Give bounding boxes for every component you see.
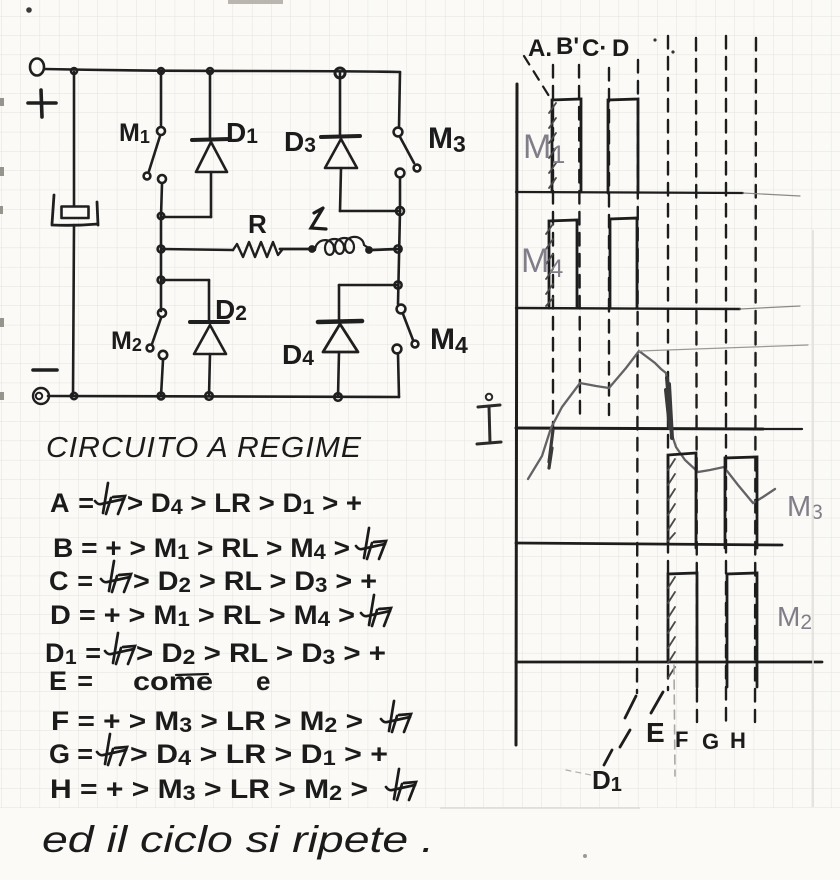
svg-text:G: G (702, 729, 719, 754)
M2 pulse 1 (668, 573, 697, 687)
net line F dashed (696, 38, 697, 722)
curve dark overdraw at E drop (666, 378, 672, 438)
M2 waveform baseline (516, 661, 822, 664)
diode D2 (208, 280, 211, 321)
SECTION: timing labels (477, 33, 823, 796)
hatch M2 pulse1 edge (668, 577, 675, 678)
wire right rail top (399, 72, 400, 127)
wire M1-M2 mid column (160, 216, 163, 311)
SECTION: sequence text (42, 432, 434, 860)
wire bottom rail (48, 396, 399, 397)
wire D4 top link (339, 284, 398, 287)
terminal minus (33, 368, 57, 372)
node A pointer dashed diagonal (524, 56, 549, 96)
I waveform baseline (516, 428, 763, 429)
svg-text:CIRCUITO A REGIME: CIRCUITO A REGIME (46, 432, 362, 464)
svg-text:H: H (730, 728, 746, 753)
svg-text:F: F (675, 727, 688, 752)
pointer dashes to D1 (604, 730, 630, 765)
wire node D1-M column (161, 216, 211, 219)
net line E dashed (667, 36, 669, 690)
SECTION: circuit (28, 59, 420, 405)
hatch M1 pulse1 edge (549, 103, 556, 188)
svg-text:> D2 > RL > D3 > +: > D2 > RL > D3 > + (133, 566, 377, 597)
svg-text:H = + > M3 > LR > M2 >: H = + > M3 > LR > M2 > (50, 774, 368, 805)
svg-text:F = + > M3 > LR > M2 >: F = + > M3 > LR > M2 > (51, 706, 363, 737)
stray dots right of D (653, 38, 656, 41)
svg-text:> D4 > LR > D1 > +: > D4 > LR > D1 > + (130, 739, 388, 770)
resistor R (233, 242, 282, 257)
svg-text:C =: C = (49, 566, 93, 596)
diode D1 (192, 139, 230, 140)
current curve (528, 351, 775, 503)
diode D3 (321, 136, 360, 137)
inductor L (309, 246, 314, 251)
wire D1 drop (209, 72, 212, 138)
net line H dashed (755, 38, 756, 722)
M3 pulse 1 (668, 453, 696, 548)
svg-text:E =: E = (49, 666, 93, 696)
svg-text:G =: G = (49, 739, 93, 769)
svg-text:B': B' (556, 33, 579, 60)
junction bottom rail (71, 393, 77, 399)
net line B dashed (579, 65, 580, 420)
svg-text:ed il ciclo si ripete .: ed il ciclo si ripete . (42, 819, 434, 860)
paper edge faint lines (812, 230, 814, 807)
svg-text:B = + > M1 > RL > M4 >: B = + > M1 > RL > M4 > (53, 533, 350, 564)
svg-text:E: E (646, 717, 665, 748)
diode D4 (338, 285, 341, 320)
net line C dashed (608, 68, 610, 415)
hatch M3 pulse1 edge (668, 459, 675, 541)
svg-text:C·: C· (582, 35, 607, 62)
wire R-L link (280, 248, 309, 251)
switch M2 (158, 309, 166, 317)
wire D3 bottom link (340, 210, 400, 213)
label L (script arrow) (311, 208, 326, 229)
wire D2 top link (161, 279, 209, 282)
net line G dashed (725, 36, 727, 722)
net line A dashed (552, 65, 554, 428)
wire left rail lower (73, 225, 74, 396)
svg-text:D: D (612, 35, 629, 62)
svg-text:A =: A = (50, 488, 94, 518)
wire right rail mid (398, 211, 400, 304)
wire top rail (44, 69, 400, 72)
net line D dashed (637, 60, 638, 693)
M4 waveform baseline (516, 308, 740, 309)
svg-text:R: R (248, 209, 267, 239)
svg-text:e: e (256, 666, 270, 696)
axis vertical (516, 84, 517, 745)
curve dark overdraw at A crossing (549, 430, 553, 468)
M1 waveform baseline (516, 192, 743, 193)
switch M1 (157, 127, 165, 135)
hatch M4 pulse1 edge (546, 224, 553, 306)
M1 pulse 1 (552, 99, 581, 192)
node big junction D3 top (335, 68, 345, 78)
junction mid column (158, 213, 164, 219)
wire RL row left (161, 249, 233, 250)
label I with dot (486, 394, 492, 400)
SECTION: circuit labels (111, 117, 468, 370)
junction right rail (396, 207, 404, 215)
M2 pulse 2 (727, 573, 757, 687)
macron over come (176, 674, 208, 675)
steady-state asymptote thin line (639, 345, 808, 351)
svg-text:come: come (133, 666, 213, 696)
switch M4 (397, 305, 406, 314)
svg-text:> D4 > LR > D1 > +: > D4 > LR > D1 > + (127, 488, 362, 519)
wire M1 drop (160, 72, 163, 126)
M3 waveform baseline (516, 543, 782, 545)
wire L to right rail (371, 249, 398, 250)
switch M3 (394, 128, 403, 137)
SECTION: timing diagram (516, 36, 822, 776)
wire left rail upper (73, 72, 76, 206)
svg-text:> D2 > RL > D3 > +: > D2 > RL > D3 > + (136, 638, 386, 669)
svg-text:D = + > M1 > RL > M4 >: D = + > M1 > RL > M4 > (50, 600, 355, 631)
M4 pulse 2 (610, 218, 637, 308)
pencil dashed line near E bottom (674, 665, 675, 776)
pointer dashes to E (625, 692, 663, 718)
M3 pulse 2 (725, 457, 757, 548)
M4 pulse 1 (549, 220, 577, 308)
terminal plus (input +) (30, 59, 44, 76)
junction top rail (71, 68, 77, 74)
svg-text:A.: A. (528, 35, 552, 62)
faint pencil connector to D1 (566, 770, 596, 776)
source B box (52, 195, 98, 225)
M1 pulse 2 (608, 99, 638, 193)
wire D3 drop (339, 73, 342, 135)
